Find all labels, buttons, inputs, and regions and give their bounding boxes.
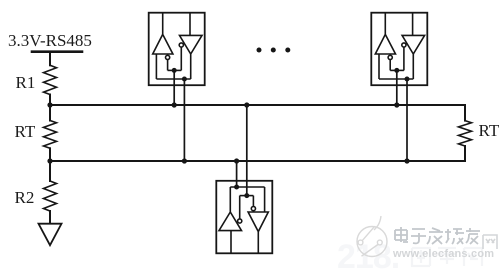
svg-text:R2: R2 <box>15 188 35 207</box>
svg-text:RT: RT <box>15 122 36 141</box>
svg-text:www.elecfans.com: www.elecfans.com <box>392 248 494 260</box>
svg-text:RT: RT <box>479 121 500 140</box>
svg-text:218.: 218. <box>337 238 399 270</box>
svg-text:R1: R1 <box>16 73 36 92</box>
svg-text:3.3V-RS485: 3.3V-RS485 <box>8 31 92 50</box>
